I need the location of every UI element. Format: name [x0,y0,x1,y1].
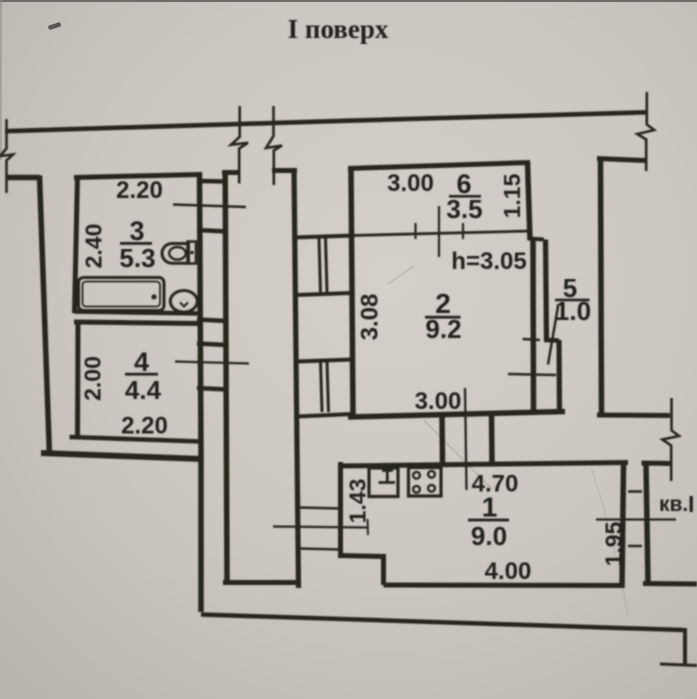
corridor bottom wall [223,580,300,585]
svg-text:4: 4 [134,347,149,377]
vent box top [294,236,354,238]
bottom right vertical [683,628,687,665]
duct top stub [199,179,225,184]
corridor door mark bottom [299,549,341,550]
room 2/5 bottom wall [348,412,565,418]
vent divider 2 [297,360,352,362]
bottom right tick [660,664,697,666]
svg-text:кв.: кв. [659,493,688,516]
toilet tank dot [190,251,194,255]
kv wall vertical [646,463,648,583]
bathtub inner [83,282,161,307]
passage wall right [489,414,495,465]
room 4 bottom wall [70,437,202,442]
room 5 left upper wall [546,240,547,340]
duct rung 4 [197,388,227,390]
toilet tank [188,242,197,264]
room 3 top wall [74,175,200,178]
room 3 door line [173,205,246,208]
bathtub outer [79,278,165,311]
outer left wall cap [7,175,41,181]
svg-text:2.00: 2.00 [80,356,106,401]
room 3 bar [120,242,152,245]
room 1 top wall [338,463,628,467]
dim divider line 3.00/4.70 [465,388,467,490]
svg-text:3.08: 3.08 [357,294,384,341]
shaft left wall cap [272,168,297,173]
right outer wall bottom [597,413,670,419]
room 3 left wall [75,176,78,314]
duct rung 2 [197,320,227,322]
break symbol left [0,119,13,193]
room 6 bar [449,195,481,198]
room 1 bottom wall [384,583,624,589]
room 1 bar [468,519,509,522]
vent2 line a [321,361,323,412]
room 1 step vertical [381,556,386,585]
svg-text:1.95: 1.95 [601,521,627,566]
dim line 1.95 [596,518,676,520]
outer bottom long wall [201,615,683,631]
rooms right / outer wall vertical [200,172,202,612]
shaft right wall [351,167,353,417]
svg-text:3.00: 3.00 [415,388,462,415]
toilet bowl inner [169,247,186,260]
svg-text:3.5: 3.5 [446,194,482,224]
kitchen sink tap [379,471,396,483]
room 6/2 top wall [348,163,530,169]
dim line 1.43 end tick [367,519,370,535]
kv wall cap [642,461,673,467]
room 1 left wall [338,462,343,557]
bathtub drain [151,294,156,299]
break symbol right middle [662,398,679,481]
svg-text:5.3: 5.3 [119,243,155,273]
vent2 line b [327,361,329,412]
washbasin mark [180,303,188,307]
svg-text:9.0: 9.0 [471,521,507,551]
divider tick a [414,223,416,239]
duct rung 1 [197,230,227,232]
svg-text:4.4: 4.4 [125,375,162,405]
svg-text:2.20: 2.20 [116,177,163,204]
vent box bottom [297,414,352,417]
vent divider 1 [296,293,351,295]
room 1 step horizontal [338,556,386,557]
room 1 right door tick bottom [628,545,642,548]
outer top wall [5,112,647,131]
divider tick c [462,223,464,239]
vent1 line a [319,238,321,292]
svg-text:1.0: 1.0 [555,296,591,326]
faint scratch room1 right [592,470,628,616]
svg-text:9.2: 9.2 [425,314,461,344]
photo top edge [0,0,697,2]
room 2 right wall [530,240,536,414]
svg-text:1.15: 1.15 [499,173,525,218]
break tick 2 [266,106,282,185]
break tick 1 [231,106,248,184]
break symbol top right [637,92,654,171]
room 5 dim line [508,374,556,375]
faint scratch room2 [388,266,414,284]
kitchen sink box [369,468,398,497]
room 4 bar [125,373,158,376]
toilet bowl [162,244,189,264]
outer left wall [40,176,50,457]
shaft left wall [294,168,299,588]
room 5 door tick [523,339,541,340]
passage wall left [439,414,445,465]
svg-text:І: І [688,491,694,517]
svg-text:1: 1 [482,492,498,523]
corridor left wall [225,172,227,582]
svg-text:3.00: 3.00 [387,170,434,197]
duct rung 3 [197,344,227,346]
room 4 left wall [75,322,81,438]
svg-text:h=3.05: h=3.05 [451,248,526,275]
dim line 1.43 [273,527,368,528]
small smudge top-left [48,22,62,30]
corridor door mark top [299,508,341,509]
svg-text:2.40: 2.40 [81,224,107,269]
right outer wall [601,157,602,414]
corridor left wall cap [222,170,240,175]
stove box [409,468,442,497]
room 5 left lower wall [556,340,562,413]
room 1 right wall [622,465,624,588]
room 1 right door tick top [628,490,642,493]
room 5 door leaf [548,307,558,365]
stove burners [413,471,435,493]
room 6 right wall [528,162,531,240]
left edge shade [0,0,2,160]
svg-text:2.20: 2.20 [121,413,168,440]
jog room5 top [528,239,544,240]
right outer wall cap [597,159,646,161]
divider tick b [438,206,440,257]
room 5 jog [544,338,559,343]
outer bottom-left cap [41,453,202,459]
kv bottom wall [643,581,697,587]
room 4 top wall [74,322,202,324]
room 3 bottom wall [74,312,202,314]
svg-text:3: 3 [129,216,144,246]
room 4 door line [175,362,249,364]
title floor label [288,14,389,44]
washbasin [170,291,197,313]
room 5 bar [555,299,590,302]
room 2 bar [425,316,461,319]
svg-text:1.43: 1.43 [345,479,371,524]
faint scratch room1 left [424,420,492,489]
vent1 line b [326,238,328,292]
svg-text:І поверх: І поверх [288,14,389,44]
room 6/2 divider [352,231,530,236]
svg-text:4.00: 4.00 [485,558,532,585]
